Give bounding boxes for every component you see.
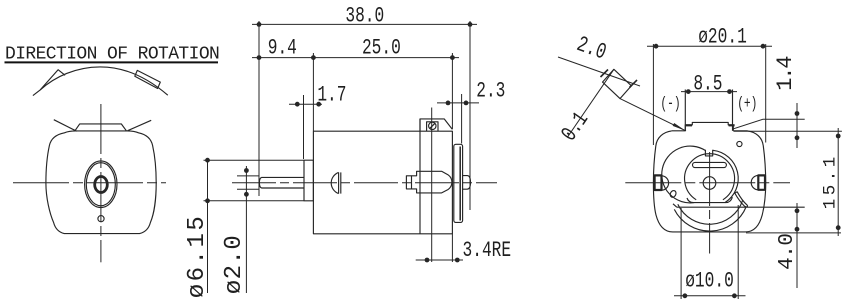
shaft tip arc [259, 177, 261, 188]
right whisker line [128, 120, 152, 130]
brush tab inner rect [427, 122, 438, 131]
svg-text:25.0: 25.0 [362, 35, 401, 60]
svg-text:8.5: 8.5 [693, 71, 722, 96]
svg-text:(+): (+) [737, 95, 757, 114]
rear body outline [653, 131, 765, 232]
rear shaft nub [463, 176, 471, 190]
terminal slot walls / 8.5 extension lines [684, 90, 686, 131]
crescent slot [735, 192, 748, 207]
rear vertical centerline [709, 152, 711, 254]
side view centerline [232, 182, 497, 184]
front bearing ring inner [86, 163, 115, 206]
1.4 leader and dimension [734, 103, 842, 148]
terminal leader arrowhead [673, 123, 686, 131]
rear hub stepped bullet [412, 171, 452, 193]
upper-right hole [737, 141, 742, 146]
svg-text:1.4: 1.4 [773, 56, 798, 91]
bottom face chord / 4.0 extension [673, 204, 805, 207]
rotation arrow tail rectangle [135, 70, 161, 88]
shaft top line [262, 176, 305, 178]
dimension 3.4RE [416, 108, 463, 263]
rear flange plate [454, 144, 463, 222]
bearing cage circle (flat bottom) [662, 146, 738, 203]
bearing cage top notch [705, 150, 712, 156]
dimension dia 6.15 [204, 158, 305, 293]
rotation arc arrow [33, 67, 168, 96]
svg-text:ø10.0: ø10.0 [685, 268, 734, 293]
svg-text:4.0: 4.0 [776, 234, 799, 270]
svg-text:3.4RE: 3.4RE [463, 238, 512, 263]
dimension 1.7 [289, 95, 322, 159]
terminal detail rect [603, 69, 632, 98]
svg-text:ø6.15: ø6.15 [184, 214, 211, 299]
brush tab rivet circle [429, 122, 436, 129]
step thick marks [686, 124, 692, 126]
dimension dia 2.0 [237, 166, 259, 293]
bearing cage chin line [687, 197, 732, 202]
rotation arrowhead [40, 70, 65, 90]
dimension 9.4 and 25.0 [252, 53, 459, 131]
rear top edge with steps [672, 122, 748, 130]
crimp arc outer [674, 207, 746, 232]
svg-text:0.1: 0.1 [557, 108, 594, 146]
front bearing ring outer [85, 161, 117, 208]
svg-text:ø2.0: ø2.0 [221, 235, 248, 295]
svg-text:38.0: 38.0 [345, 3, 384, 28]
dimension 8.5 [681, 89, 737, 94]
rear shaft hole [703, 177, 716, 190]
4.0 dimension [795, 203, 800, 288]
rear horizontal centerline [625, 182, 790, 184]
terminal dim line 2.0 [558, 57, 640, 86]
svg-text:9.4: 9.4 [268, 35, 297, 60]
left whisker line [54, 120, 77, 132]
brush tab outline [420, 119, 452, 131]
svg-text:2.3: 2.3 [476, 78, 505, 103]
dimension 38.0 [252, 21, 477, 210]
svg-text:(-): (-) [660, 95, 680, 114]
svg-text:ø20.1: ø20.1 [698, 24, 747, 49]
front boss rectangle [304, 160, 313, 201]
motor front view body [46, 131, 156, 234]
right side tab [758, 175, 765, 189]
left side tab [655, 175, 662, 190]
terminal oblique ticks [601, 70, 609, 78]
front shaft hole (thick ring) [95, 177, 108, 193]
svg-text:2.0: 2.0 [573, 32, 609, 66]
brush window slot [693, 162, 727, 167]
front bearing dome [331, 172, 338, 193]
bearing cage inner ring [685, 154, 735, 200]
terminal leader [620, 99, 686, 131]
dimension 2.3 [437, 94, 479, 144]
svg-text:15.1: 15.1 [821, 153, 841, 209]
dia 10.0 dimension [674, 205, 746, 299]
right side tab dome [751, 175, 758, 189]
front vertical centerline [100, 104, 102, 262]
can/endbell seam [419, 119, 421, 234]
15.1 dimension [746, 128, 841, 236]
front top tab [75, 124, 126, 131]
terminal dim line 0.1 [568, 69, 614, 137]
dimension dia 20.1 [647, 44, 772, 145]
shaft bottom line [262, 187, 305, 189]
rear flange inner line [459, 147, 461, 221]
lower-left teardrop hole [669, 190, 677, 199]
svg-text:1.7: 1.7 [317, 82, 346, 107]
left side tab dome [662, 176, 669, 190]
motor body rectangle [313, 131, 452, 234]
front vent hole [98, 216, 104, 222]
title: DIRECTION OF ROTATION [5, 45, 220, 65]
rear hub small rect [406, 176, 411, 189]
crimp arc inner [678, 200, 743, 224]
front horizontal centerline [13, 182, 166, 184]
